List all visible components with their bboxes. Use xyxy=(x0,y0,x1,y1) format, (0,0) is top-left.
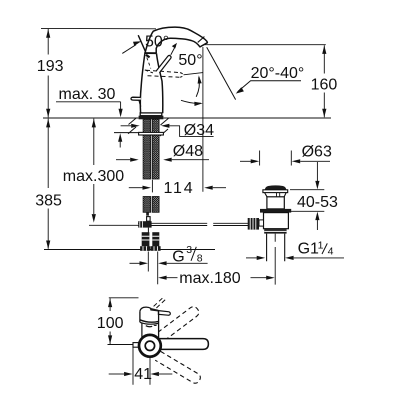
escutcheon xyxy=(139,116,164,120)
svg-text:41: 41 xyxy=(134,366,152,383)
svg-text:G: G xyxy=(172,249,184,266)
deck line xyxy=(43,117,331,119)
lower arc to ext line xyxy=(181,100,201,103)
plug flange xyxy=(263,190,288,193)
dim 114 xyxy=(129,180,226,197)
svg-text:max.300: max.300 xyxy=(63,168,124,185)
dim D48 xyxy=(116,143,209,162)
dim 385 xyxy=(35,119,215,250)
pop-up knob on body xyxy=(131,97,141,100)
svg-text:1: 1 xyxy=(318,239,324,251)
tab left of ring xyxy=(133,343,140,348)
ring inner xyxy=(145,341,154,350)
svg-text:385: 385 xyxy=(35,192,62,209)
centerline xyxy=(274,234,276,285)
handle up line xyxy=(138,35,145,51)
dim max.300 xyxy=(63,119,124,223)
svg-text:20°-40°: 20°-40° xyxy=(251,65,305,82)
dim 160 xyxy=(311,45,338,117)
threaded shank columns xyxy=(139,119,164,215)
dim D34 xyxy=(121,122,215,139)
rotation arc 50 deg xyxy=(196,77,199,97)
dashed lever raised (head) xyxy=(154,297,164,306)
svg-text:114: 114 xyxy=(164,180,195,197)
svg-text:G1: G1 xyxy=(298,240,319,257)
svg-text:50°: 50° xyxy=(178,52,202,69)
dim max.30 xyxy=(56,86,123,148)
deck bottom line xyxy=(114,132,139,134)
svg-text:max. 30: max. 30 xyxy=(59,86,116,103)
dim 100 xyxy=(97,298,139,345)
faucet body xyxy=(131,27,207,113)
dim 193 xyxy=(37,29,64,118)
lever axis line to ext xyxy=(184,73,203,75)
svg-text:160: 160 xyxy=(311,77,338,94)
rod clamp xyxy=(147,217,151,222)
hidden lever dashes inside body xyxy=(145,70,153,73)
ring outer xyxy=(139,335,161,357)
base flange xyxy=(140,113,162,116)
svg-text:50°: 50° xyxy=(145,34,169,51)
spout ext vertical line xyxy=(202,47,204,192)
20-40 leader xyxy=(238,81,301,92)
upper body xyxy=(267,197,284,209)
dim G3/8 xyxy=(130,244,208,284)
mid body xyxy=(264,213,289,229)
drain assembly xyxy=(248,185,292,284)
svg-text:100: 100 xyxy=(97,315,124,332)
knob shaft xyxy=(259,220,264,226)
lower flange xyxy=(264,229,286,233)
svg-text:3: 3 xyxy=(186,244,192,256)
svg-text:Ø34: Ø34 xyxy=(184,122,214,139)
svg-text:40-53: 40-53 xyxy=(297,194,338,211)
dim D63 xyxy=(240,143,332,165)
svg-text:8: 8 xyxy=(197,253,203,265)
aerator inner line xyxy=(198,37,205,43)
svg-text:Ø48: Ø48 xyxy=(173,143,203,160)
svg-text:max.180: max.180 xyxy=(179,270,240,287)
leader arrow 50 deg 1 xyxy=(122,45,136,54)
solid lever bar xyxy=(152,339,208,350)
body left edge xyxy=(140,53,145,113)
lever base band xyxy=(144,52,157,54)
deck cut slashes xyxy=(128,118,169,136)
big flange xyxy=(260,209,291,213)
vertical rod below clamp xyxy=(147,228,149,251)
dashed horizontal lever xyxy=(146,70,180,72)
faucet head side view xyxy=(140,307,170,339)
tailpipe xyxy=(267,234,285,262)
washer under deck xyxy=(139,132,164,135)
body right edge xyxy=(157,53,163,113)
taper xyxy=(265,193,287,197)
top reference line xyxy=(41,27,156,29)
stream line xyxy=(207,47,236,99)
160 top line xyxy=(205,44,326,46)
plug dome xyxy=(265,185,286,189)
dim 40-53 xyxy=(290,162,338,230)
dim G1 1/4 xyxy=(246,239,344,260)
mid-open lever rod xyxy=(156,55,171,72)
dim max.180 xyxy=(158,270,275,287)
svg-text:Ø63: Ø63 xyxy=(302,143,332,160)
svg-text:4: 4 xyxy=(328,246,334,258)
dim 41 xyxy=(109,348,173,385)
dashed swung bars xyxy=(155,307,200,384)
knurled knob xyxy=(248,218,259,230)
pop-up rod xyxy=(89,223,249,225)
svg-text:193: 193 xyxy=(37,58,64,75)
spout + neck outline xyxy=(145,27,207,53)
hose fittings xyxy=(140,232,161,251)
